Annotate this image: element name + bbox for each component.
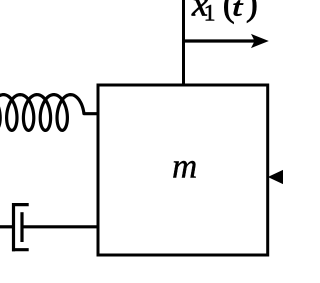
damper cylinder back wall [12, 203, 15, 251]
damper piston plate [20, 212, 23, 242]
damper rod right to mass [22, 225, 100, 228]
damper cylinder top arm [12, 203, 29, 206]
force arrow head (right side, pointing left at mass) [268, 168, 288, 187]
displacement arrow x1(t) head [251, 34, 269, 48]
svg-text:t: t [232, 0, 243, 22]
svg-text:): ) [246, 0, 258, 23]
mass block m [98, 85, 268, 255]
damper rod left [0, 225, 14, 228]
svg-text:m: m [172, 147, 197, 186]
damper cylinder bottom arm [12, 248, 29, 251]
svg-text:1: 1 [204, 0, 216, 26]
wire vertical from mass top [182, 0, 185, 85]
spring k (coil) with connector wire to mass [0, 95, 99, 131]
displacement arrow x1(t) shaft [184, 39, 257, 42]
